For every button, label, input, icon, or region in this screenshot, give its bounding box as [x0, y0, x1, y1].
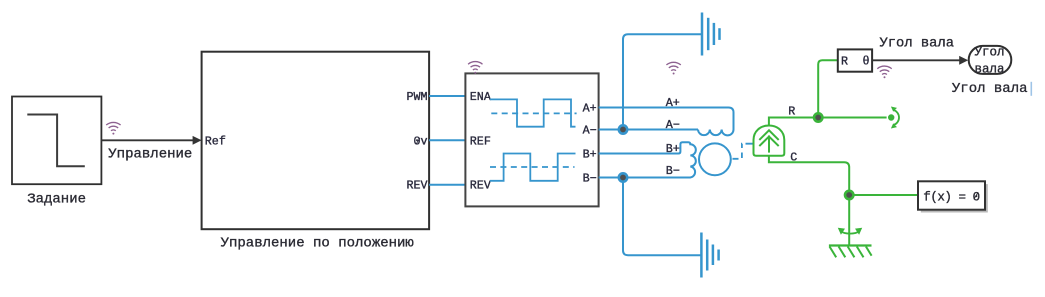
svg-text:Управление: Управление — [108, 146, 192, 162]
svg-text:PWM: PWM — [406, 90, 427, 104]
solver block f(x)=0 — [918, 181, 985, 209]
svg-text:REV: REV — [406, 179, 427, 193]
rotational converter block (green dome) — [754, 126, 785, 156]
svg-text:R: R — [788, 105, 795, 119]
wire to bottom electrical reference — [623, 178, 701, 256]
svg-text:B+: B+ — [583, 148, 597, 162]
junction on A- — [619, 125, 627, 133]
svg-text:B+: B+ — [666, 142, 680, 156]
wire junction down to mechanical reference — [848, 195, 850, 245]
driver block (H-bridge PWM) — [465, 73, 598, 206]
wifi icon 2 — [468, 62, 482, 74]
arrowhead into Ref — [193, 136, 202, 145]
wire A+ with winding down to coil — [599, 108, 734, 136]
svg-text:Ref: Ref — [205, 134, 226, 148]
step source block Задание — [12, 97, 101, 185]
wifi icon 3 — [666, 62, 680, 74]
junction on C wire — [845, 191, 853, 199]
PWM waveform 1 — [490, 99, 576, 126]
wire junction to solver block — [849, 194, 918, 196]
controller block Управление по положению — [202, 52, 430, 230]
svg-text:Угол вала: Угол вала — [952, 81, 1028, 97]
svg-text:Угол: Угол — [974, 46, 1004, 60]
text cursor — [1030, 82, 1032, 96]
svg-text:Управление по положению: Управление по положению — [221, 236, 415, 252]
svg-text:f(x) = 0: f(x) = 0 — [923, 190, 979, 204]
svg-text:REV: REV — [470, 179, 491, 193]
svg-text:B−: B− — [583, 172, 597, 186]
mech reference arrowheads — [838, 228, 845, 235]
svg-text:A−: A− — [666, 118, 680, 132]
wire B+ into vertical winding — [599, 142, 696, 177]
svg-text:Угол вала: Угол вала — [880, 37, 955, 52]
wire Управление (step to controller) — [101, 139, 193, 141]
junction on B- — [619, 173, 627, 181]
PWM waveform 2 midline — [490, 166, 575, 168]
svg-text:0v: 0v — [413, 134, 427, 148]
svg-text:Задание: Задание — [27, 191, 86, 207]
wire B- — [599, 177, 689, 179]
svg-text:R: R — [841, 54, 848, 68]
svg-text:вала: вала — [974, 63, 1005, 77]
mechanical rotational reference (ground) — [829, 231, 872, 257]
wire REV to REV — [429, 184, 465, 186]
wire R (green) — [769, 118, 887, 127]
wire 0v to REF — [429, 139, 465, 141]
svg-text:A+: A+ — [666, 96, 680, 110]
wire to top electrical reference — [623, 34, 701, 129]
mechanical dash-dot link — [733, 144, 754, 159]
slashed zero mark 0v — [416, 138, 420, 144]
arrow icon inside dome — [759, 130, 778, 152]
rotational reference icon (dot with arc arrows) — [888, 107, 899, 129]
svg-text:ENA: ENA — [470, 90, 492, 104]
svg-text:A−: A− — [583, 124, 597, 138]
svg-text:REF: REF — [470, 134, 491, 148]
svg-text:C: C — [790, 151, 797, 165]
wifi icon 4 — [877, 66, 891, 78]
wire C (green) — [769, 156, 849, 195]
bottom electrical reference (ground) — [701, 233, 718, 278]
top electrical reference (ground) — [702, 13, 720, 56]
slashed zero mark fx — [974, 192, 978, 199]
wifi icon 1 — [106, 122, 120, 134]
PWM waveform 2 — [490, 154, 576, 181]
motor rotor circle — [699, 143, 731, 175]
wire PWM to ENA — [429, 95, 465, 97]
svg-text:B−: B− — [666, 164, 680, 178]
svg-text:θ: θ — [862, 54, 869, 68]
svg-text:A+: A+ — [583, 102, 597, 116]
step waveform icon — [27, 115, 85, 167]
junction on R wire — [814, 113, 822, 121]
wire from R junction up to sensor — [818, 60, 838, 117]
wire sensor to scope — [872, 59, 960, 61]
arrowhead into scope — [959, 56, 968, 65]
sensor block R theta — [838, 49, 872, 71]
wire A- — [599, 129, 698, 131]
solver block f(x)=0 shadow — [921, 184, 988, 212]
PWM waveform 1 midline — [491, 112, 576, 114]
